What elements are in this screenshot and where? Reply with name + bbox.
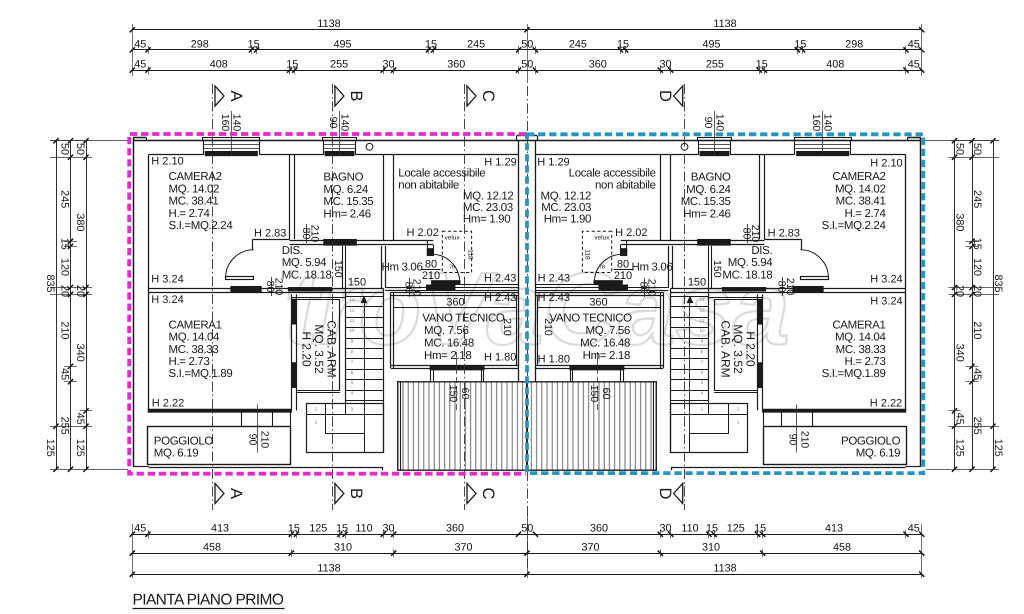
- dis door leaf + arc: [226, 277, 254, 280]
- svg-text:245: 245: [58, 190, 70, 208]
- svg-text:Hm= 2.46: Hm= 2.46: [323, 208, 370, 220]
- svg-text:210: 210: [799, 431, 811, 449]
- party wall: [518, 141, 520, 382]
- circle symbol: [366, 143, 373, 150]
- bottom dimension chains: [132, 534, 527, 536]
- svg-text:408: 408: [826, 59, 844, 71]
- svg-text:150: 150: [447, 385, 459, 403]
- svg-text:210: 210: [411, 279, 423, 297]
- stairs upper flight: [345, 296, 383, 298]
- svg-text:45: 45: [908, 523, 920, 535]
- svg-text:H 2.22: H 2.22: [152, 398, 184, 410]
- svg-text:78: 78: [449, 265, 455, 271]
- svg-text:255: 255: [330, 59, 348, 71]
- svg-text:125: 125: [953, 439, 965, 457]
- svg-text:Hm= 1.90: Hm= 1.90: [544, 214, 591, 226]
- svg-text:MQ. 3.52: MQ. 3.52: [731, 324, 745, 374]
- wardrobe door bars: [292, 300, 296, 324]
- svg-text:408: 408: [210, 59, 228, 71]
- svg-text:210: 210: [273, 278, 285, 296]
- svg-text:1138: 1138: [713, 18, 736, 30]
- svg-text:50: 50: [521, 38, 533, 50]
- svg-text:90: 90: [247, 434, 259, 446]
- svg-text:210: 210: [542, 318, 554, 336]
- svg-text:MC. 38.33: MC. 38.33: [169, 344, 219, 356]
- svg-text:MC. 38.33: MC. 38.33: [836, 344, 886, 356]
- svg-text:15: 15: [248, 38, 260, 50]
- svg-text:245: 245: [569, 38, 587, 50]
- svg-text:S.I.=MQ.2.24: S.I.=MQ.2.24: [169, 220, 234, 232]
- svg-text:210: 210: [614, 270, 632, 282]
- svg-text:380: 380: [953, 213, 965, 231]
- svg-text:PIANTA PIANO PRIMO: PIANTA PIANO PRIMO: [133, 592, 284, 609]
- centre line: [527, 86, 529, 568]
- terrace edge line: [133, 466, 149, 468]
- svg-text:50: 50: [521, 523, 533, 535]
- dimension numbers top: [134, 18, 920, 575]
- svg-text:H 2.43: H 2.43: [538, 292, 570, 304]
- svg-text:360: 360: [590, 523, 608, 535]
- svg-text:H 2.20: H 2.20: [300, 331, 314, 367]
- svg-text:340: 340: [953, 344, 965, 362]
- svg-text:210: 210: [501, 318, 513, 336]
- svg-text:11: 11: [350, 318, 355, 323]
- svg-text:H 2.10: H 2.10: [870, 158, 902, 170]
- svg-text:210: 210: [422, 270, 440, 282]
- svg-text:370: 370: [581, 542, 599, 554]
- wall corridor/locale: [381, 246, 383, 288]
- svg-text:MC. 38.41: MC. 38.41: [169, 196, 219, 208]
- svg-text:MQ. 5.94: MQ. 5.94: [728, 257, 773, 269]
- svg-text:20: 20: [971, 285, 983, 297]
- corridor wall camera2/camera1: [148, 288, 383, 290]
- svg-text:45: 45: [134, 523, 146, 535]
- svg-text:C: C: [479, 90, 497, 102]
- svg-text:CAMERA1: CAMERA1: [832, 319, 885, 331]
- svg-text:80: 80: [617, 258, 629, 270]
- svg-text:45: 45: [908, 59, 920, 71]
- svg-text:380: 380: [74, 213, 86, 231]
- svg-text:H 3.24: H 3.24: [870, 274, 902, 286]
- svg-text:298: 298: [845, 38, 863, 50]
- svg-text:12: 12: [349, 307, 355, 312]
- svg-text:H 3.24: H 3.24: [870, 296, 902, 308]
- svg-text:15: 15: [58, 238, 70, 250]
- svg-text:H 2.83: H 2.83: [254, 228, 286, 240]
- svg-text:H 1.80: H 1.80: [538, 354, 570, 366]
- svg-text:30: 30: [659, 523, 671, 535]
- svg-text:Locale accessibile: Locale accessibile: [569, 168, 656, 180]
- room labels right unit: [537, 157, 902, 460]
- svg-text:80: 80: [425, 258, 437, 270]
- section markers: [215, 86, 224, 106]
- svg-text:310: 310: [702, 542, 720, 554]
- svg-text:Hm= 1.90: Hm= 1.90: [463, 214, 510, 226]
- svg-text:125: 125: [992, 439, 1004, 457]
- svg-text:360: 360: [446, 523, 464, 535]
- svg-text:140: 140: [714, 114, 726, 132]
- svg-text:245: 245: [971, 190, 983, 208]
- svg-text:MQ. 7.56: MQ. 7.56: [586, 325, 631, 337]
- svg-text:non abitabile: non abitabile: [398, 180, 459, 192]
- svg-text:150: 150: [332, 260, 344, 278]
- svg-text:50: 50: [521, 59, 533, 71]
- window 160/140 camera2: [203, 138, 260, 141]
- svg-text:15: 15: [706, 523, 718, 535]
- svg-text:110: 110: [355, 523, 372, 535]
- svg-text:20: 20: [58, 285, 70, 297]
- svg-text:15: 15: [286, 59, 298, 71]
- svg-text:Hm= 2.46: Hm= 2.46: [683, 208, 730, 220]
- svg-text:120: 120: [58, 258, 70, 276]
- svg-text:velux: velux: [594, 235, 610, 242]
- svg-text:H 2.22: H 2.22: [870, 398, 902, 410]
- svg-text:60: 60: [600, 388, 612, 400]
- svg-text:C: C: [479, 488, 497, 500]
- svg-text:210: 210: [749, 225, 761, 243]
- vano tecnico top wall: [391, 292, 519, 294]
- svg-text:210: 210: [309, 225, 321, 243]
- svg-text:MC. 23.03: MC. 23.03: [463, 202, 513, 214]
- magenta unit border (left): [129, 134, 526, 474]
- svg-text:S.I.=MQ.1.89: S.I.=MQ.1.89: [822, 368, 886, 380]
- svg-text:835: 835: [44, 274, 56, 292]
- svg-text:H.= 2.74: H.= 2.74: [169, 208, 211, 220]
- exterior top wall: [133, 137, 147, 139]
- svg-text:140: 140: [339, 114, 351, 132]
- svg-text:413: 413: [211, 523, 229, 535]
- locale door wall line + leaf + arc: [433, 284, 519, 286]
- svg-text:MQ. 6.19: MQ. 6.19: [856, 448, 901, 460]
- svg-text:H 2.20: H 2.20: [743, 331, 757, 367]
- svg-text:MQ. 6.24: MQ. 6.24: [686, 184, 731, 196]
- svg-text:15: 15: [971, 238, 983, 250]
- vano tecnico bottom wall + 150/60 window: [391, 365, 519, 367]
- svg-text:110: 110: [681, 523, 698, 535]
- poggiolo balcony: [148, 427, 291, 465]
- top dimension chains: [132, 29, 527, 31]
- svg-text:H.= 2.74: H.= 2.74: [845, 208, 887, 220]
- svg-text:210: 210: [58, 321, 70, 339]
- svg-text:118: 118: [466, 249, 473, 260]
- svg-text:90: 90: [327, 117, 339, 129]
- svg-text:H.= 2.73: H.= 2.73: [169, 356, 210, 368]
- stairs landing: [307, 404, 384, 453]
- svg-text:CAB. ARM: CAB. ARM: [719, 320, 733, 377]
- svg-text:15: 15: [617, 38, 629, 50]
- svg-text:45: 45: [953, 413, 965, 425]
- svg-text:H 3.24: H 3.24: [151, 294, 183, 306]
- svg-text:118: 118: [584, 249, 591, 260]
- svg-text:B: B: [347, 488, 365, 499]
- svg-text:413: 413: [825, 523, 843, 535]
- svg-text:H.= 2.73: H.= 2.73: [845, 356, 886, 368]
- svg-text:12: 12: [699, 307, 705, 312]
- room labels left unit: [151, 155, 516, 459]
- hatched terrace roof: [398, 382, 528, 470]
- svg-text:15: 15: [288, 523, 300, 535]
- svg-text:298: 298: [191, 38, 209, 50]
- svg-text:H 1.80: H 1.80: [484, 352, 516, 364]
- svg-text:125: 125: [44, 439, 56, 457]
- corridor wall at locale: [385, 287, 518, 289]
- svg-text:MQ. 6.24: MQ. 6.24: [323, 184, 368, 196]
- svg-text:30: 30: [659, 59, 671, 71]
- svg-text:90: 90: [787, 434, 799, 446]
- svg-text:140: 140: [230, 114, 242, 132]
- svg-text:45: 45: [971, 368, 983, 380]
- window 90/140 bagno: [323, 138, 357, 141]
- svg-text:140: 140: [822, 114, 834, 132]
- svg-text:CAMERA1: CAMERA1: [169, 319, 222, 331]
- svg-text:H 2.43: H 2.43: [484, 273, 516, 285]
- wall cab.arm/stairs: [339, 300, 341, 391]
- svg-text:360: 360: [446, 297, 464, 309]
- svg-text:S.I.=MQ.2.24: S.I.=MQ.2.24: [822, 220, 887, 232]
- svg-text:210: 210: [971, 321, 983, 339]
- svg-text:15: 15: [425, 38, 437, 50]
- svg-text:245: 245: [467, 38, 485, 50]
- svg-text:VANO TECNICO: VANO TECNICO: [422, 313, 505, 325]
- svg-text:H 2.83: H 2.83: [768, 228, 800, 240]
- svg-text:H 1.29: H 1.29: [537, 157, 569, 169]
- svg-text:H 3.24: H 3.24: [151, 274, 183, 286]
- svg-text:15: 15: [754, 523, 766, 535]
- svg-text:255: 255: [706, 59, 724, 71]
- stairs right wall: [383, 288, 385, 452]
- svg-text:150: 150: [688, 277, 706, 289]
- svg-text:A: A: [227, 90, 245, 101]
- svg-text:30: 30: [382, 523, 394, 535]
- svg-text:POGGIOLO: POGGIOLO: [841, 435, 901, 447]
- locale door wall stub: [427, 240, 429, 255]
- svg-text:MQ. 12.12: MQ. 12.12: [541, 191, 592, 203]
- svg-text:360: 360: [589, 59, 607, 71]
- svg-text:255: 255: [58, 417, 70, 435]
- svg-text:125: 125: [727, 523, 745, 535]
- svg-text:310: 310: [334, 542, 352, 554]
- svg-text:MQ. 14.04: MQ. 14.04: [835, 332, 886, 344]
- party wall parapet step: [517, 135, 528, 137]
- svg-text:90: 90: [702, 117, 714, 129]
- svg-text:125: 125: [309, 523, 327, 535]
- exterior left wall: [133, 138, 135, 467]
- svg-text:10: 10: [349, 328, 355, 333]
- svg-text:150: 150: [711, 260, 723, 278]
- svg-text:210: 210: [784, 278, 796, 296]
- svg-text:45: 45: [908, 38, 920, 50]
- svg-text:45: 45: [58, 368, 70, 380]
- svg-text:MC. 38.41: MC. 38.41: [836, 196, 886, 208]
- svg-text:458: 458: [203, 542, 221, 554]
- svg-text:340: 340: [74, 344, 86, 362]
- watermark: [284, 251, 790, 366]
- svg-text:360: 360: [447, 59, 465, 71]
- svg-text:13: 13: [349, 297, 355, 302]
- svg-text:BAGNO: BAGNO: [691, 172, 731, 184]
- svg-text:velux: velux: [445, 235, 461, 242]
- svg-text:BAGNO: BAGNO: [323, 172, 363, 184]
- velux roof window: [442, 231, 471, 272]
- svg-text:non abitabile: non abitabile: [595, 180, 656, 192]
- svg-text:370: 370: [454, 542, 472, 554]
- svg-text:H 2.02: H 2.02: [407, 227, 439, 239]
- svg-text:10: 10: [699, 328, 705, 333]
- dis/stairs wall: [342, 246, 344, 289]
- svg-text:210: 210: [646, 279, 658, 297]
- svg-text:Locale accessibile: Locale accessibile: [398, 168, 485, 180]
- svg-text:MQ. 7.56: MQ. 7.56: [424, 325, 469, 337]
- svg-text:MC. 15.35: MC. 15.35: [681, 196, 731, 208]
- svg-text:160: 160: [810, 114, 822, 132]
- svg-text:MC. 16.48: MC. 16.48: [424, 338, 474, 350]
- svg-text:H 2.43: H 2.43: [484, 292, 516, 304]
- svg-text:78: 78: [599, 265, 605, 271]
- svg-text:MC. 18.18: MC. 18.18: [722, 269, 772, 281]
- svg-text:MQ. 5.94: MQ. 5.94: [282, 257, 327, 269]
- svg-text:60: 60: [459, 388, 471, 400]
- svg-text:CAMERA2: CAMERA2: [169, 171, 222, 183]
- svg-text:A: A: [227, 488, 245, 499]
- svg-text:MQ. 14.04: MQ. 14.04: [169, 332, 220, 344]
- svg-text:MQ. 14.02: MQ. 14.02: [835, 183, 886, 195]
- svg-text:B: B: [347, 90, 365, 101]
- svg-text:MC. 23.03: MC. 23.03: [541, 202, 591, 214]
- svg-text:45: 45: [134, 59, 146, 71]
- svg-text:45: 45: [74, 413, 86, 425]
- svg-text:13: 13: [699, 297, 705, 302]
- top wall inner face segments: [148, 154, 203, 156]
- cyan unit border (right): [527, 134, 923, 473]
- cab.arm top/bottom walls: [291, 297, 345, 299]
- svg-text:S.I.=MQ.1.89: S.I.=MQ.1.89: [169, 368, 233, 380]
- svg-text:1138: 1138: [317, 18, 340, 30]
- svg-text:MC. 16.48: MC. 16.48: [580, 338, 630, 350]
- svg-text:150: 150: [588, 385, 600, 403]
- svg-text:Hm= 2.18: Hm= 2.18: [583, 350, 630, 362]
- svg-text:DIS.: DIS.: [751, 245, 772, 257]
- svg-text:20: 20: [74, 285, 86, 297]
- svg-text:MQ. 12.12: MQ. 12.12: [463, 191, 514, 203]
- svg-text:1138: 1138: [317, 563, 340, 575]
- svg-text:H 1.29: H 1.29: [484, 157, 516, 169]
- side dimension lines: [56, 141, 58, 470]
- svg-text:MC. 18.18: MC. 18.18: [282, 269, 332, 281]
- svg-text:15: 15: [794, 38, 806, 50]
- wall camera2/bagno: [289, 155, 291, 239]
- svg-text:360: 360: [589, 297, 607, 309]
- svg-text:255: 255: [971, 417, 983, 435]
- svg-text:VANO TECNICO: VANO TECNICO: [549, 313, 632, 325]
- stair tread numbers: [315, 297, 740, 425]
- svg-text:120: 120: [971, 258, 983, 276]
- camera2 nook wall: [253, 239, 290, 241]
- svg-text:495: 495: [702, 38, 720, 50]
- svg-text:30: 30: [382, 59, 394, 71]
- svg-text:H 2.02: H 2.02: [615, 227, 647, 239]
- balcony door: [241, 412, 243, 426]
- svg-text:1138: 1138: [713, 563, 736, 575]
- vano tecnico left wall: [390, 292, 392, 368]
- svg-text:458: 458: [833, 542, 851, 554]
- svg-text:15: 15: [756, 59, 768, 71]
- wall camera1/cab.arm: [291, 294, 293, 410]
- svg-text:20: 20: [953, 285, 965, 297]
- svg-text:H 2.43: H 2.43: [538, 273, 570, 285]
- vano inner top line: [394, 307, 517, 309]
- centre ticks and extensions: [524, 27, 529, 32]
- svg-text:POGGIOLO: POGGIOLO: [154, 435, 214, 447]
- svg-text:Hm 3.06: Hm 3.06: [631, 261, 672, 273]
- svg-text:50: 50: [74, 143, 86, 155]
- svg-text:15: 15: [336, 523, 348, 535]
- svg-text:45: 45: [134, 38, 146, 50]
- wall bagno/locale: [383, 155, 385, 240]
- svg-text:125: 125: [74, 439, 86, 457]
- svg-text:D: D: [656, 90, 674, 102]
- svg-text:DIS.: DIS.: [282, 245, 303, 257]
- svg-text:835: 835: [992, 274, 1004, 292]
- svg-text:495: 495: [333, 38, 351, 50]
- svg-text:210: 210: [259, 431, 271, 449]
- svg-text:H 2.10: H 2.10: [151, 155, 183, 167]
- svg-text:MC. 15.35: MC. 15.35: [323, 196, 373, 208]
- svg-text:150: 150: [348, 277, 366, 289]
- stairs up arrow: [364, 302, 366, 448]
- svg-text:160: 160: [219, 114, 231, 132]
- svg-text:50: 50: [971, 143, 983, 155]
- svg-text:50: 50: [953, 143, 965, 155]
- wall bagno bottom + locale nook: [290, 240, 434, 242]
- camera1 bottom wall: [148, 409, 291, 412]
- svg-text:D: D: [656, 488, 674, 500]
- svg-text:CAMERA2: CAMERA2: [832, 171, 885, 183]
- svg-text:MQ. 14.02: MQ. 14.02: [169, 183, 220, 195]
- svg-text:Hm 3.06: Hm 3.06: [382, 261, 423, 273]
- svg-text:Hm= 2.18: Hm= 2.18: [424, 350, 471, 362]
- svg-text:11: 11: [700, 318, 705, 323]
- section lines A B C D: [212, 84, 214, 510]
- svg-text:MQ. 6.19: MQ. 6.19: [154, 448, 199, 460]
- svg-text:50: 50: [58, 143, 70, 155]
